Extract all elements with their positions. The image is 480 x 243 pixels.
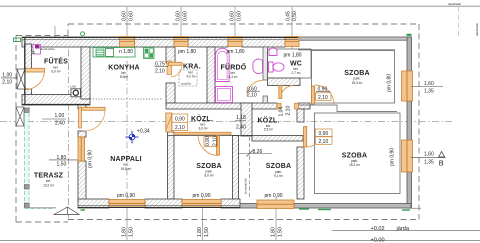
wall szoba9/szobaBig lower [297,147,304,199]
internal dim 8,26 [238,137,272,199]
svg-text:telekhatár: telekhatár [475,23,479,36]
svg-text:pm 1,80: pm 1,80 [284,53,302,59]
door futes left wall X symbol [17,69,25,89]
svg-text:1,80: 1,80 [197,227,203,237]
corridor south lintel band [174,132,231,135]
svg-text:pm 0,90: pm 0,90 [390,148,396,166]
room label kozl2 [258,115,280,131]
svg-text:2,10: 2,10 [286,106,292,116]
corridor opening jambs [277,103,281,109]
nappali window dim 1,80/1,50 [49,155,78,167]
door arc corridor->szoba top right [315,85,334,104]
svg-text:bontandó fal: bontandó fal [244,178,248,194]
room rect wc [268,49,312,78]
svg-text:2,40: 2,40 [55,120,65,126]
door nappali->kozl in-wall [166,113,172,132]
wall nappali left lower [78,161,86,201]
wall left upper (futes) [25,44,32,69]
walls hatched [22,37,310,208]
svg-text:15,3 m²: 15,3 m² [352,81,363,85]
terasz teal edge [24,107,54,209]
entrance step triangle [54,207,79,215]
szoba big top step wall outline [296,105,397,112]
svg-text:1,18: 1,18 [236,115,246,121]
svg-text:pm 1,80: pm 1,80 [178,49,196,55]
gray wall bottom right [240,204,411,209]
svg-text:n 1,80: n 1,80 [119,49,133,55]
wall nappali/szoba8 vertical [168,132,175,199]
svg-text:pm 0,80: pm 0,80 [387,74,393,92]
terasz bottom edge line [29,207,56,209]
door arc terasz->nappali [84,110,105,131]
svg-text:0,90: 0,90 [175,117,185,123]
wc toilet [269,62,285,72]
door terasz->nappali jamb [79,108,82,129]
axis line x=202.5 bottom [202,197,204,240]
svg-text:+0,02: +0,02 [371,226,385,232]
nappali-kozl door dim boxed 0,90/2,10 [172,114,188,131]
window W9 bottom szoba8 [182,200,221,208]
svg-text:3,6 m²: 3,6 m² [198,126,207,130]
wall bottom segment 1 [78,199,109,208]
dotted line konyha/nappali [90,98,163,100]
window W10 bottom szoba9 [257,200,294,209]
svg-text:2,10: 2,10 [318,95,328,101]
room label konyha [108,64,140,79]
wall szoba8/szoba9 vertical [233,136,239,200]
door konyha->kamra jamb [167,61,172,75]
pad.fag dashed box kamra [179,70,197,86]
svg-text:8,9m²: 8,9m² [120,75,128,79]
svg-text:0,60: 0,60 [183,11,189,21]
wall nappali left mid [78,131,86,137]
ground line at SE corner [412,207,422,209]
svg-text:2,10: 2,10 [2,80,12,86]
axis line x=276 bottom [275,197,277,240]
door wc arc [281,86,294,99]
wall kamra/furdo [207,47,215,103]
svg-text:1,60: 1,60 [424,152,434,158]
top rotated dims 0,60|0,60 at x=127 [122,11,299,21]
szoba top right door dim boxed 0,90/2,10 [316,86,332,101]
kond.cirko unit [32,45,55,55]
wall bottom segment 2 [145,199,182,208]
svg-text:1,35: 1,35 [424,159,434,165]
right dim lower 1,60/1,35 with B marker [411,152,446,168]
svg-text:6,0 m²: 6,0 m² [51,70,60,74]
door konyha->kamra leaf [169,62,183,65]
svg-text:5,5 m²: 5,5 m² [264,128,273,132]
right dim upper 1,60/1,35 [411,81,443,95]
svg-text:1,80: 1,80 [122,227,128,237]
svg-text:telekhatár: telekhatár [448,2,461,6]
wall szoba9 top [252,136,303,142]
room label kamra [183,64,201,79]
wall bottom segment 3 [221,199,240,208]
svg-text:pm 0,90: pm 0,90 [88,150,94,168]
svg-text:19,8 m²: 19,8 m² [121,167,132,171]
svg-text:2,40: 2,40 [236,125,246,131]
wall konyha/kamra lower [166,83,175,103]
room label nappali [110,156,142,171]
room label wc [290,61,302,76]
svg-text:+0,34: +0,34 [137,128,150,134]
eaves dashed outline [16,24,419,222]
wall konyha/kamra upper [166,47,175,63]
svg-text:KÖZL.: KÖZL. [191,114,213,123]
shower tray [216,87,233,103]
furdo door dim 0,60/2,10 [246,86,260,98]
svg-text:B: B [439,159,444,168]
axis line x=55 top short [54,26,56,40]
svg-text:FÜRDŐ: FÜRDŐ [221,62,247,71]
door corridor->szoba top right leaf [312,86,315,104]
svg-text:pm 0,90: pm 0,90 [193,193,211,199]
window W8 bottom nappali [109,200,145,208]
svg-text:13,2 m²: 13,2 m² [43,183,54,187]
wall top segment 3 [188,37,228,47]
svg-text:kond.cirko: kond.cirko [41,47,55,51]
window W1 konyha [120,37,135,47]
room label szoba big [342,152,368,167]
room label furdo [221,62,247,79]
door wc leaf [279,86,282,99]
svg-text:2,7 m²: 2,7 m² [291,71,300,75]
svg-text:4,2 m²: 4,2 m² [186,75,195,79]
door arc konyha->kamra [171,65,183,77]
window W3 furdo [228,37,242,47]
room label szoba9 [266,163,292,178]
room rect szoba top right [312,51,395,104]
svg-text:1,04: 1,04 [279,107,285,117]
window W5 right wall top [402,71,413,101]
svg-text:8,26: 8,26 [253,149,263,155]
svg-text:1,35: 1,35 [424,89,434,95]
door terasz->nappali leaf [82,107,106,110]
window W4 wc [285,37,299,47]
konyha-kamra door dim 0,75/2,10 [155,61,169,74]
wall futes bottom [22,95,90,106]
svg-text:1,50: 1,50 [129,227,135,237]
svg-text:1,50: 1,50 [57,161,67,167]
svg-text:2,10: 2,10 [175,125,185,131]
washbasin furdo [253,59,263,74]
svg-text:pm 0,90: pm 0,90 [117,193,135,199]
window W7 nappali left wall [78,137,85,161]
kitchen counter [93,48,135,58]
room label terasz [34,173,64,188]
axis line x=127 full height [126,7,128,47]
wall nappali left stub top [78,105,86,109]
svg-text:0,60: 0,60 [129,11,135,21]
wall top segment 2 [135,37,175,47]
svg-text:+0,00: +0,00 [371,238,385,243]
door futes leaf [25,68,45,72]
door arc futes [25,72,44,90]
wall kozl divider block [241,103,252,136]
bathtub [216,48,230,81]
svg-text:2,10: 2,10 [155,69,165,75]
kitchen stove [144,48,155,59]
axis line x=181 top [180,7,182,47]
wc basin [269,48,277,55]
section axis line vertical A (x=68.5) [68,36,70,219]
svg-text:2,10: 2,10 [247,92,257,98]
svg-text:6,3 m²: 6,3 m² [228,75,237,79]
gray wall top right [298,37,411,50]
wall corridor top right stub [298,103,310,109]
wall top segment 1 [22,37,120,47]
door arc kozl1->szoba8 [198,136,218,156]
room label kozl1 [191,114,213,131]
svg-text:0,90: 0,90 [205,136,211,146]
svg-text:1,50: 1,50 [278,227,284,237]
svg-text:8,0 m²: 8,0 m² [204,174,213,178]
wall szoba9/szobaBig upper [297,109,304,122]
property line telekhatar right (dashed vertical) [459,7,480,38]
svg-text:FŰTÉS: FŰTÉS [44,57,68,66]
svg-text:LSK: LSK [71,84,77,88]
room label szoba top right [344,70,370,85]
window W2 kamra [174,37,188,47]
wall corridor top long [166,103,277,109]
bottom rotated dims 1,80|1,50 [122,227,284,237]
svg-text:pm 0,90: pm 0,90 [265,193,283,199]
svg-text:15,2 m²: 15,2 m² [349,163,360,167]
door furdo arc [247,81,263,96]
svg-text:0,60: 0,60 [176,11,182,21]
svg-text:1,80: 1,80 [57,155,67,161]
svg-text:0,60: 0,60 [122,11,128,21]
svg-text:0,50: 0,50 [292,11,298,21]
wc door dim rotated 1,04 2,10 [279,106,292,117]
X-box terasz top left [16,107,24,126]
svg-text:2,10: 2,10 [212,136,218,146]
svg-text:1,60: 1,60 [424,81,434,87]
svg-text:pad.fűt.: pad.fűt. [182,81,192,85]
svg-text:0,60: 0,60 [237,11,243,21]
wall wc bottom [268,78,301,86]
LSK chimney [71,84,81,97]
door kozl2->szobaBig leaf [304,127,307,148]
room label futes [44,57,68,74]
level mark compass +0,34 [126,128,150,143]
terasz door dim 1,00/2,40 [42,113,66,126]
window W6 right wall bottom [402,140,413,172]
svg-text:0,45: 0,45 [286,11,292,21]
wall left lower (futes below door) [25,89,32,105]
outer wall edge emphasis [22,37,298,207]
room rect szoba big [315,113,401,194]
green survey marks [14,32,412,210]
wall top segment 4 [242,37,285,47]
wall thin furdo/wc [263,47,268,103]
axis line x=292 top [291,7,293,49]
bottom right levels [371,226,410,243]
futes door dim 1,00/2,10 [1,72,18,85]
property line telekhatar top [0,2,480,6]
sidewalk line jarda [332,230,480,232]
gray wall right side [407,37,412,208]
svg-text:0,60: 0,60 [230,11,236,21]
room label szoba8 [196,163,222,178]
axis line x=235 top [234,7,236,47]
door arc kozl2->szobaBig [307,133,321,148]
svg-text:0,90: 0,90 [319,131,329,137]
door kozl1->szoba8 leaf [217,136,220,156]
windows orange top wall [120,37,300,47]
szoba big door dim boxed 0,90/2,10 [316,129,333,145]
bottom dimension line [0,240,480,242]
svg-text:2,10: 2,10 [319,139,329,145]
svg-text:1,80: 1,80 [271,227,277,237]
svg-text:pm 1,80: pm 1,80 [227,49,245,55]
svg-text:9,1 m²: 9,1 m² [274,174,283,178]
svg-text:1,50: 1,50 [204,227,210,237]
kozl opening dim 1,18/2,40 [235,115,246,131]
svg-text:1,00: 1,00 [2,72,12,78]
svg-text:1,00: 1,00 [55,113,65,119]
szoba8 door dim rotated 0,90 2,10 [204,136,218,146]
section axis line horizontal B (y=121.5) [0,121,452,123]
svg-text:járda: járda [396,226,410,232]
wall futes/konyha [81,47,90,99]
